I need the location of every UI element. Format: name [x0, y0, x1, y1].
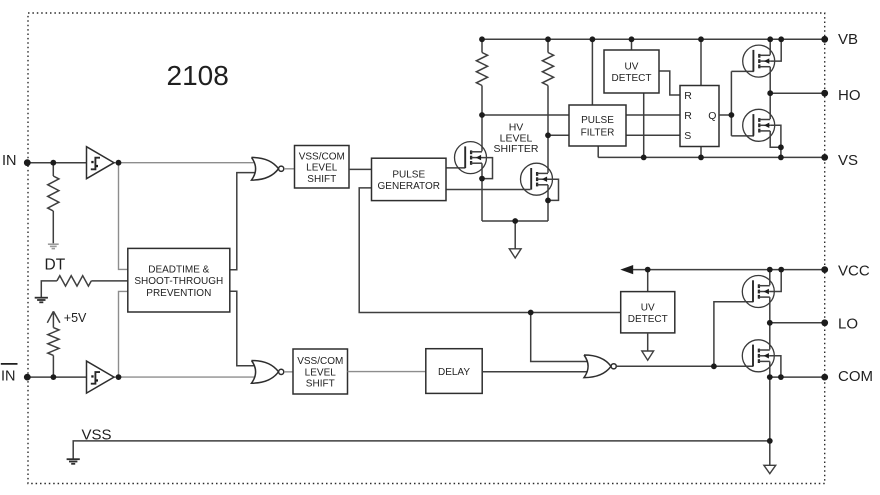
- node IN buffer output: [116, 160, 122, 166]
- wire Q4 body down: [770, 125, 781, 147]
- node M1 source: [479, 176, 485, 182]
- node IN pin: [24, 159, 31, 166]
- node R2 bottom: [545, 132, 551, 138]
- supply arrow +5V: [47, 311, 60, 327]
- wire R2 node to pulse filter: [548, 134, 569, 136]
- svg-text:SHIFTER: SHIFTER: [494, 143, 539, 155]
- node M2 source: [545, 198, 551, 204]
- svg-text:SHOOT-THROUGH: SHOOT-THROUGH: [134, 276, 223, 287]
- node R1 top VB: [479, 36, 485, 42]
- wire LO rail: [770, 322, 825, 324]
- svg-text:LEVEL: LEVEL: [306, 163, 338, 174]
- svg-text:+5V: +5V: [64, 311, 87, 325]
- node VSS right end: [767, 438, 773, 444]
- block pulse generator: [372, 158, 447, 200]
- wire DT ground lead: [41, 281, 57, 298]
- node IN resistor junction: [50, 160, 56, 166]
- wire VCC rail: [633, 269, 825, 271]
- node VCC Q5 drain: [767, 267, 773, 273]
- svg-text:FILTER: FILTER: [581, 128, 615, 139]
- pin LO: [821, 319, 828, 326]
- wire deadtime bottom-right stub to lower NOR: [230, 291, 257, 365]
- block VSS/COM level shift (high side): [295, 146, 350, 189]
- wire deadtime top-right stub to upper NOR: [230, 173, 257, 270]
- wire IN-bar pin to buffer: [27, 376, 86, 378]
- wire VB to latch supply: [700, 39, 702, 85]
- wire Q4 source down: [770, 131, 781, 147]
- node latch VS: [698, 155, 704, 161]
- wire G2 output to low side level shift: [284, 371, 293, 373]
- svg-text:IN: IN: [1, 369, 16, 385]
- wire M1 body loop: [482, 158, 493, 179]
- wire Q4 to VS rail: [780, 147, 782, 157]
- wire G3 output to gate node: [616, 365, 714, 367]
- node feedback line: [528, 310, 534, 316]
- wire level shift to delay: [348, 371, 426, 373]
- wire VCC to UV detect supply: [647, 270, 649, 292]
- NOR gate G3 (low side drive): [584, 355, 611, 378]
- svg-text:VB: VB: [838, 31, 858, 48]
- svg-text:IN: IN: [2, 153, 17, 169]
- wire IN pin to buffer: [27, 162, 86, 164]
- wire gate node to Q3 and Q4 gates: [731, 71, 754, 135]
- svg-text:DETECT: DETECT: [612, 73, 652, 84]
- node LO: [767, 320, 773, 326]
- svg-text:PULSE: PULSE: [581, 115, 614, 126]
- NOR gate G2 (low side input): [252, 361, 279, 384]
- node Q gate: [729, 112, 735, 118]
- block UV detect (low side): [621, 292, 675, 333]
- node Q4 VS: [778, 155, 784, 161]
- wire to VS return arrow: [514, 221, 516, 249]
- wire DT resistor to deadtime block: [91, 280, 128, 282]
- svg-text:DETECT: DETECT: [628, 314, 668, 325]
- svg-text:DEADTIME &: DEADTIME &: [148, 264, 209, 275]
- wire pulse generator output to M1 gate: [446, 167, 465, 169]
- ground DT: [35, 297, 48, 299]
- wire VSS rail: [73, 441, 770, 459]
- transistor M1 (HV level shift): [455, 142, 487, 174]
- svg-text:GENERATOR: GENERATOR: [378, 181, 440, 192]
- wire IN buffer output to NOR gate: [114, 162, 257, 164]
- wire level shift to pulse generator: [349, 168, 372, 170]
- ground VSS: [67, 458, 80, 460]
- wire Q6 source to COM: [769, 362, 771, 378]
- wire Q3 drain to VB: [769, 39, 771, 55]
- node Q3 body VB: [778, 36, 784, 42]
- wire M2 drain: [547, 135, 549, 173]
- node IN-bar pin: [24, 374, 31, 381]
- wire latch Q output to gate node: [719, 114, 731, 116]
- pin VB: [821, 36, 828, 43]
- wire VSS node to substrate arrow: [769, 441, 771, 465]
- resistor pullup from +5V: [48, 328, 59, 356]
- node UV VS: [641, 155, 647, 161]
- wire Q3 body to VB: [770, 39, 781, 61]
- svg-text:R: R: [684, 90, 692, 102]
- resistor R2 to VB: [547, 39, 549, 52]
- svg-text:S: S: [684, 130, 691, 142]
- wire pulse filter to latch R: [626, 114, 680, 116]
- wire level shifter common rail: [482, 220, 548, 222]
- node R1 bottom: [479, 112, 485, 118]
- wire VS rail: [598, 156, 825, 158]
- resistor pulldown on IN: [52, 163, 54, 176]
- latch U3 (SR flip flop): [680, 86, 719, 147]
- node IN-bar resistor junction: [51, 374, 57, 380]
- VCC feed arrow (filled): [620, 265, 633, 274]
- wire gate node to Q5 gate: [714, 302, 754, 367]
- transistor Q6 (low side output, COM): [742, 340, 774, 372]
- wire IN buffer output down to deadtime block: [119, 163, 128, 270]
- wire feedback node down to G3 input: [531, 313, 589, 362]
- wire UV detect to COM arrow: [647, 333, 649, 351]
- wire deadtime block down to IN-bar buffer output: [119, 291, 128, 377]
- wire Q5 body to VCC: [770, 270, 781, 292]
- wire M1 source to common: [481, 163, 483, 221]
- wire VB rail: [482, 38, 825, 40]
- NOR gate G1 (high side input): [252, 157, 279, 180]
- node pulse filter supply VB: [590, 36, 596, 42]
- wire Q4 drain to HO: [769, 93, 771, 119]
- wire VB to UV detect supply: [631, 39, 633, 50]
- wire M2 body loop: [548, 179, 559, 200]
- schmitt buffer U2 on IN-bar: [87, 361, 115, 393]
- wire UV detect bottom to VS: [643, 93, 645, 157]
- wire Q5 drain to VCC: [769, 270, 771, 286]
- pin VS: [821, 154, 828, 161]
- svg-text:VSS/COM: VSS/COM: [299, 152, 345, 163]
- node Q4 join: [778, 144, 784, 150]
- svg-text:2108: 2108: [167, 60, 229, 91]
- svg-text:UV: UV: [641, 302, 655, 313]
- block delay: [426, 349, 482, 394]
- block deadtime and shoot-through prevention: [128, 248, 230, 312]
- substrate return arrow (open): [764, 465, 776, 473]
- wire Q3 source to HO: [769, 67, 771, 93]
- svg-text:COM: COM: [838, 368, 873, 385]
- wire COM rail: [770, 376, 825, 378]
- block VSS/COM level shift (low side): [293, 349, 348, 394]
- node low side gate: [711, 363, 717, 369]
- wire Q5 source to LO: [769, 297, 771, 323]
- node IN-bar buffer output: [116, 374, 122, 380]
- svg-text:DELAY: DELAY: [438, 367, 470, 378]
- node level shifter common: [512, 218, 518, 224]
- node VCC Q5 body: [778, 267, 784, 273]
- svg-text:LO: LO: [838, 316, 858, 333]
- wire M2 source to common: [547, 185, 549, 221]
- resistor R1 to VB: [481, 39, 483, 52]
- node HO: [767, 90, 773, 96]
- wire latch bottom to VS: [700, 147, 702, 158]
- wire Q6 source down to VSS node: [769, 377, 771, 441]
- schmitt buffer U1 on IN: [87, 147, 115, 179]
- wire gate node to Q6 gate: [714, 365, 754, 367]
- wire pulse generator output to M2 gate: [446, 189, 530, 191]
- transistor Q4 (high side output, VS): [743, 109, 775, 141]
- pin VCC: [821, 266, 828, 273]
- svg-text:VCC: VCC: [838, 263, 870, 280]
- wire UV detect output to latch R input: [659, 71, 680, 95]
- node UV supply VB: [629, 36, 635, 42]
- svg-text:LEVEL: LEVEL: [305, 367, 337, 378]
- resistor DT: [57, 276, 91, 286]
- node latch supply VB: [698, 36, 704, 42]
- transistor Q3 (high side output, VB): [743, 45, 775, 77]
- svg-text:DT: DT: [45, 256, 66, 273]
- pin HO: [821, 90, 828, 97]
- wire HO rail: [770, 92, 825, 94]
- svg-text:R: R: [684, 110, 692, 122]
- svg-text:UV: UV: [625, 62, 639, 73]
- wire pulse generator feedback to low side: [359, 188, 621, 313]
- wire pulse filter to latch S: [626, 134, 680, 136]
- COM return arrow (open): [642, 351, 654, 360]
- wire G1 output to VSS/COM level shift: [284, 168, 295, 170]
- wire Q6 body to COM: [770, 356, 781, 377]
- wire IN-bar buffer output to NOR gate: [114, 376, 257, 378]
- wire pulse filter bottom to VS: [597, 146, 599, 157]
- svg-text:HO: HO: [838, 87, 861, 104]
- node R2 top VB: [545, 36, 551, 42]
- block pulse filter: [569, 105, 626, 146]
- node Q3 drain VB: [767, 36, 773, 42]
- wire VB to pulse filter supply: [591, 39, 593, 105]
- block UV detect (high side): [604, 50, 659, 93]
- node COM Q6 source: [767, 374, 773, 380]
- node VCC UV supply: [645, 267, 651, 273]
- ground below IN resistor: [48, 243, 59, 245]
- transistor M2 (HV level shift): [521, 163, 553, 195]
- wire Q6 drain to LO: [769, 323, 771, 350]
- svg-text:PULSE: PULSE: [392, 170, 425, 181]
- node COM Q6 body: [778, 374, 784, 380]
- svg-text:Q: Q: [708, 110, 716, 122]
- wire R1 node to pulse filter: [482, 114, 569, 116]
- transistor Q5 (low side output, VCC): [742, 276, 774, 308]
- svg-text:VS: VS: [838, 152, 858, 169]
- svg-text:SHIFT: SHIFT: [306, 379, 335, 390]
- svg-text:PREVENTION: PREVENTION: [146, 288, 211, 299]
- wire delay to G3: [482, 371, 589, 373]
- VS return arrow (open): [509, 249, 521, 258]
- pin COM: [821, 374, 828, 381]
- svg-text:VSS/COM: VSS/COM: [297, 356, 343, 367]
- wire M1 drain: [481, 115, 483, 151]
- svg-text:SHIFT: SHIFT: [307, 174, 336, 185]
